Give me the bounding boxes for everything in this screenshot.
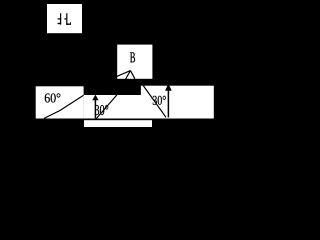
wire line A to B segment in 60 box: [44, 95, 84, 118]
middle white band at point C: [84, 95, 141, 119]
30-degree right box at point D: [141, 86, 214, 119]
north label box: [47, 4, 82, 33]
label B: [130, 52, 135, 62]
north arrow head at C: [92, 95, 98, 101]
label 60 degrees: [45, 93, 61, 102]
north arrow head at D: [165, 83, 172, 90]
wire line D to B segment in right box: [143, 86, 166, 118]
label 30 degrees at D: [153, 96, 166, 105]
label 30 degrees at C: [95, 105, 108, 115]
glyph north (drawn strokes): [58, 13, 71, 25]
wire line D to B segment under B: [130, 71, 135, 79]
wire line C to B segment in band: [95, 95, 116, 120]
north arrow shaft at D: [167, 90, 169, 117]
north arrow shaft at C: [94, 100, 96, 118]
60-degree label box: [36, 86, 84, 118]
wire line A to B segment under B: [117, 71, 131, 77]
sea baseline strip: [84, 120, 152, 127]
wire line C to B segment under B: [117, 71, 131, 95]
B label box: [117, 45, 152, 79]
